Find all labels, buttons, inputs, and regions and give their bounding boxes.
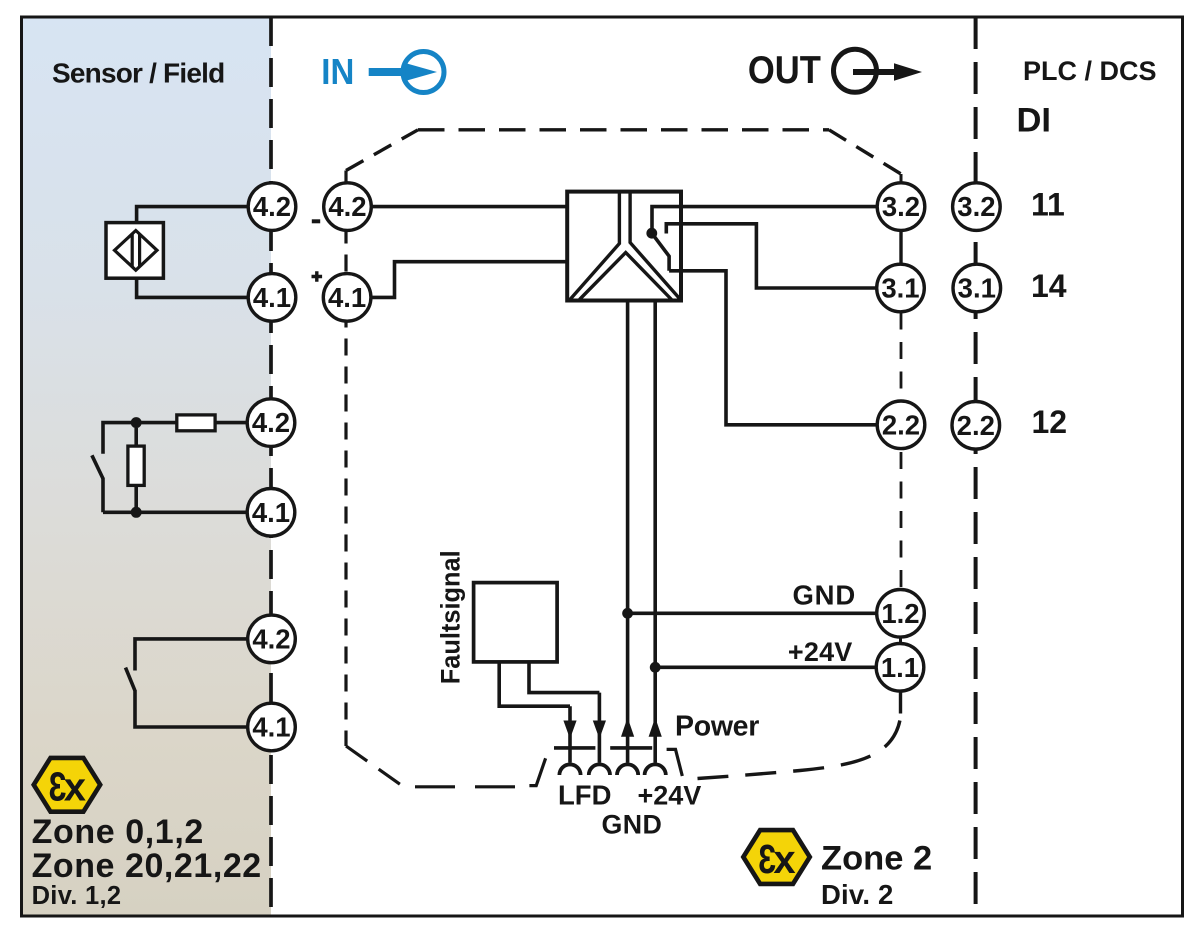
module dashed outline bottom-left	[346, 746, 406, 789]
svg-text:4.1: 4.1	[328, 282, 366, 313]
Ex hazard symbol left	[34, 758, 101, 812]
terminal circle 3.2 module OUT	[877, 183, 925, 231]
wire GND to 1.2	[628, 611, 877, 615]
svg-text:Power: Power	[675, 710, 759, 742]
switch S2 blade	[92, 455, 103, 478]
terminal circle 4.2 field pair1	[248, 183, 296, 231]
terminal socket LFD	[559, 764, 580, 775]
svg-text:+24V: +24V	[788, 637, 853, 667]
svg-text:PLC / DCS: PLC / DCS	[1023, 56, 1157, 86]
svg-text:4.1: 4.1	[253, 282, 291, 313]
terminal circle 4.2 field pair3	[248, 615, 296, 663]
proximity sensor B1 diamond symbol	[115, 231, 158, 271]
svg-text:1.2: 1.2	[881, 598, 919, 629]
wire module to 2.2	[669, 271, 878, 425]
svg-text:x: x	[64, 766, 86, 810]
Faultsignal wire to LFD	[499, 662, 570, 763]
terminal circle 1.1 module power	[876, 644, 924, 692]
switch S3 blade	[126, 668, 135, 691]
Ex hazard symbol right	[743, 830, 810, 884]
junction dot +24V	[650, 662, 661, 673]
module dashed outline top	[346, 130, 901, 174]
arrow down GND	[593, 721, 606, 739]
wire module to 3.2	[652, 207, 878, 229]
terminal circle 1.2 module power	[877, 590, 925, 638]
OUT direction icon	[834, 49, 923, 92]
svg-text:DI: DI	[1017, 102, 1052, 140]
terminal circle 4.1 module IN	[323, 274, 371, 322]
svg-text:3.1: 3.1	[881, 273, 919, 304]
terminal circle 3.1 module OUT	[877, 264, 925, 312]
resistor R1	[177, 415, 215, 431]
terminal crossbar right	[610, 746, 652, 750]
switch S2 circuit wires	[103, 423, 248, 513]
svg-text:4.1: 4.1	[252, 712, 290, 743]
power rail +24V vertical	[653, 301, 657, 763]
terminal circle 2.2 PLC	[952, 402, 1000, 450]
junction dot S2 top	[131, 417, 142, 428]
svg-text:4.2: 4.2	[328, 191, 366, 222]
wire +24V to 1.1	[655, 665, 877, 669]
svg-text:4.1: 4.1	[252, 497, 290, 528]
svg-text:GND: GND	[602, 809, 663, 839]
module outline right comb drop	[667, 749, 683, 776]
svg-text:1.1: 1.1	[881, 652, 919, 683]
terminal circle 4.1 field pair3	[248, 703, 296, 751]
terminal crossbar left	[554, 746, 595, 750]
resistor R2	[128, 446, 144, 485]
svg-text:4.2: 4.2	[253, 191, 291, 222]
svg-text:GND: GND	[792, 580, 856, 611]
power rail GND vertical	[626, 301, 630, 763]
module dashed outline left vertical	[344, 171, 347, 747]
module dashed outline bottom-right curve	[698, 713, 902, 779]
arrow down LFD	[563, 721, 576, 739]
Sensor/Field hazardous zone panel	[22, 17, 271, 916]
switch S3 circuit wires	[135, 639, 249, 727]
svg-text:11: 11	[1031, 187, 1065, 223]
svg-text:LFD: LFD	[558, 780, 611, 811]
isolation amplifier U1 body	[567, 192, 681, 301]
arrow up +24V rail	[649, 718, 662, 737]
junction dot GND	[622, 608, 633, 619]
svg-text:14: 14	[1031, 268, 1067, 304]
wire IN 4.1 to module	[371, 262, 568, 298]
svg-text:4.2: 4.2	[252, 407, 290, 438]
svg-text:+24V: +24V	[638, 781, 702, 811]
svg-text:Div. 1,2: Div. 1,2	[32, 882, 122, 910]
terminal circle 4.1 field pair1	[248, 274, 296, 322]
terminal circle 4.2 module IN	[324, 183, 372, 231]
svg-text:3.1: 3.1	[958, 273, 996, 304]
svg-text:3.2: 3.2	[882, 191, 920, 222]
terminal socket GND in	[617, 764, 638, 775]
svg-text:Div. 2: Div. 2	[821, 879, 894, 910]
svg-text:x: x	[773, 838, 795, 882]
terminal circle 2.2 module OUT	[877, 401, 925, 449]
svg-text:4.2: 4.2	[252, 624, 290, 655]
wire IN 4.2 to module	[371, 205, 567, 209]
module outline right column segments	[899, 174, 903, 714]
wire module to 3.1 with open hook	[666, 224, 877, 288]
svg-text:2.2: 2.2	[882, 409, 920, 440]
Faultsignal wire to GND out	[529, 662, 599, 763]
junction dot S2 bottom	[131, 507, 142, 518]
field boundary dashed line	[269, 17, 273, 916]
IN direction icon	[369, 52, 444, 93]
proximity sensor B1 wires	[137, 207, 249, 298]
polarity plus	[312, 271, 323, 282]
svg-text:2.2: 2.2	[957, 410, 995, 441]
svg-text:OUT: OUT	[748, 49, 821, 92]
terminal circle 3.2 PLC	[953, 183, 1001, 231]
module outline left comb rise	[529, 758, 545, 785]
relay contact blade	[652, 233, 669, 271]
svg-text:Zone 2: Zone 2	[821, 839, 932, 877]
Faultsignal box	[474, 583, 557, 662]
svg-text:Zone 20,21,22: Zone 20,21,22	[32, 847, 262, 885]
svg-text:IN: IN	[321, 51, 354, 92]
svg-text:12: 12	[1032, 404, 1068, 440]
svg-text:3.2: 3.2	[957, 191, 995, 222]
svg-text:Zone 0,1,2: Zone 0,1,2	[32, 813, 204, 851]
svg-text:Sensor / Field: Sensor / Field	[52, 57, 224, 88]
proximity sensor B1 body	[106, 223, 163, 279]
terminal socket +24V	[645, 764, 666, 775]
terminal circle 4.1 field pair2	[247, 489, 295, 537]
svg-text:Faultsignal: Faultsignal	[436, 550, 466, 684]
terminal circle 3.1 PLC	[953, 264, 1001, 312]
relay contact junction dot	[646, 228, 657, 239]
arrow up GND rail	[621, 718, 634, 737]
polarity minus	[312, 219, 320, 223]
terminal circle 4.2 field pair2	[247, 399, 295, 447]
terminal socket GND out	[589, 764, 610, 775]
PLC boundary dashed line	[974, 17, 978, 916]
isolation amplifier U1 Y-divider	[570, 193, 680, 300]
